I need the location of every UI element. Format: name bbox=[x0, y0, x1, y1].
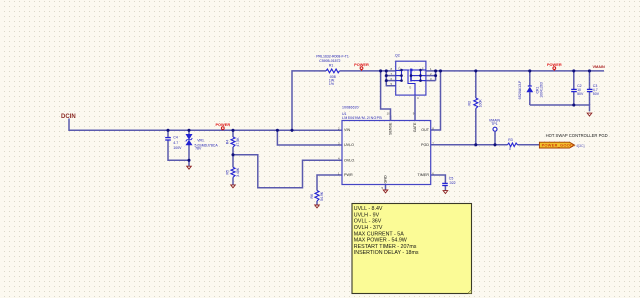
svg-text:100V: 100V bbox=[173, 146, 182, 150]
svg-text:UVLO: UVLO bbox=[344, 143, 354, 147]
svg-text:10041263: 10041263 bbox=[539, 82, 543, 98]
svg-text:R1: R1 bbox=[329, 63, 334, 67]
svg-text:R6: R6 bbox=[310, 194, 314, 199]
svg-text:.022: .022 bbox=[449, 181, 456, 185]
svg-text:GND: GND bbox=[384, 175, 388, 184]
svg-text:D: D bbox=[399, 66, 401, 70]
svg-text:DCIN: DCIN bbox=[61, 114, 76, 120]
svg-text:POWER: POWER bbox=[215, 122, 230, 127]
svg-text:POWER: POWER bbox=[354, 62, 369, 67]
svg-text:78V: 78V bbox=[195, 147, 202, 151]
svg-text:POWER: POWER bbox=[547, 62, 562, 67]
svg-text:MAX POWER - 54.9W: MAX POWER - 54.9W bbox=[354, 238, 407, 244]
svg-text:4.7: 4.7 bbox=[173, 141, 178, 145]
svg-text:50V: 50V bbox=[593, 92, 600, 96]
svg-text:VIN: VIN bbox=[344, 128, 350, 132]
svg-text:MAX CURRENT - 5A: MAX CURRENT - 5A bbox=[354, 231, 404, 237]
svg-text:4[3C]: 4[3C] bbox=[576, 144, 584, 148]
svg-text:OVLL - 36V: OVLL - 36V bbox=[354, 219, 382, 225]
svg-text:0: 0 bbox=[509, 147, 511, 151]
svg-text:OUT: OUT bbox=[421, 128, 430, 132]
svg-text:47.5K: 47.5K bbox=[236, 137, 240, 147]
svg-text:OVLO: OVLO bbox=[344, 158, 354, 162]
svg-text:54.9K: 54.9K bbox=[320, 191, 324, 201]
svg-text:VR1: VR1 bbox=[197, 139, 204, 143]
svg-text:R4: R4 bbox=[225, 140, 229, 145]
svg-text:C5905-01572: C5905-01572 bbox=[319, 59, 340, 63]
svg-text:10086620: 10086620 bbox=[342, 105, 359, 109]
svg-text:3.48K: 3.48K bbox=[236, 167, 240, 177]
svg-text:VMAIN: VMAIN bbox=[593, 65, 605, 69]
svg-text:GATE: GATE bbox=[413, 122, 417, 132]
svg-text:S: S bbox=[422, 66, 424, 70]
svg-text:10: 10 bbox=[387, 112, 391, 116]
svg-text:PGD: PGD bbox=[421, 143, 429, 147]
svg-text:RESTART TIMER - 207ms: RESTART TIMER - 207ms bbox=[354, 244, 417, 250]
svg-text:UVLH - 9V: UVLH - 9V bbox=[354, 212, 380, 218]
svg-text:HOT SWAP CONTROLLER PGD: HOT SWAP CONTROLLER PGD bbox=[546, 133, 608, 138]
svg-text:100K: 100K bbox=[478, 99, 482, 108]
svg-text:G: G bbox=[409, 86, 411, 90]
svg-text:50V: 50V bbox=[577, 92, 584, 96]
svg-text:PRL1632-R008-F-T1: PRL1632-R008-F-T1 bbox=[316, 54, 349, 58]
svg-text:6S20A/13-F: 6S20A/13-F bbox=[518, 81, 522, 100]
svg-text:R5: R5 bbox=[225, 170, 229, 175]
svg-text:1%: 1% bbox=[329, 82, 334, 86]
svg-text:INSERTION DELAY - 18ms: INSERTION DELAY - 18ms bbox=[354, 250, 419, 256]
svg-text:TIMER: TIMER bbox=[418, 173, 430, 177]
svg-text:PWR: PWR bbox=[344, 173, 353, 177]
svg-text:OVLH - 37V: OVLH - 37V bbox=[354, 225, 383, 231]
svg-text:TP1: TP1 bbox=[491, 122, 497, 126]
svg-text:Q2: Q2 bbox=[395, 53, 400, 57]
svg-text:R3: R3 bbox=[508, 138, 513, 142]
svg-text:POWER_GOOD: POWER_GOOD bbox=[542, 144, 574, 148]
svg-text:SENSE: SENSE bbox=[389, 122, 393, 135]
svg-text:R2: R2 bbox=[468, 101, 472, 106]
svg-text:UVLL - 8.4V: UVLL - 8.4V bbox=[354, 206, 383, 212]
svg-text:C4: C4 bbox=[173, 136, 178, 140]
svg-text:LM5069M/M-2/NOPB: LM5069M/M-2/NOPB bbox=[342, 116, 382, 120]
